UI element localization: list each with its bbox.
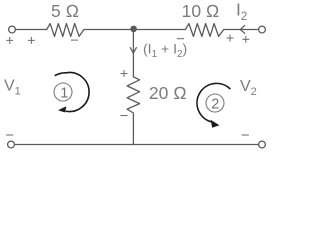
svg-text:5 Ω: 5 Ω <box>51 1 79 21</box>
svg-text:1: 1 <box>60 85 68 101</box>
svg-text:2: 2 <box>211 96 219 112</box>
svg-text:10 Ω: 10 Ω <box>182 1 220 21</box>
svg-text:20 Ω: 20 Ω <box>149 83 187 103</box>
